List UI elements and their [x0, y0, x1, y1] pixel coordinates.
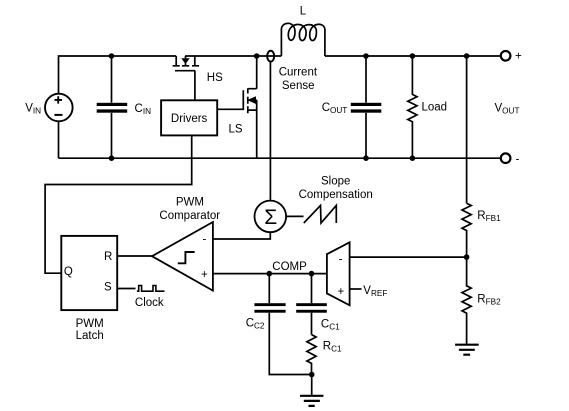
svg-text:LS: LS: [229, 124, 243, 136]
node compensation bottom junction: [309, 372, 315, 378]
node feedback tap top: [464, 53, 470, 59]
node COUT top: [363, 53, 369, 59]
label VREF: [363, 285, 387, 298]
wire error amp plus input to VREF: [350, 288, 362, 290]
current sense element: [267, 51, 274, 62]
svg-text:COMP: COMP: [272, 261, 307, 273]
node Load top: [410, 53, 416, 59]
svg-text:Drivers: Drivers: [171, 113, 208, 125]
driver block U1 Drivers: [161, 100, 217, 135]
summer U2 sigma: [254, 201, 286, 233]
latch U4 PWM latch: [61, 236, 117, 310]
wire top rail right (inductor to + terminal): [325, 55, 501, 57]
resistor RFB1: [462, 203, 471, 257]
svg-text:VOUT: VOUT: [495, 103, 520, 116]
slope compensation ramp symbol: [304, 205, 337, 223]
label CIN: [135, 103, 152, 116]
svg-text:CC2: CC2: [246, 318, 265, 331]
label VOUT: [495, 103, 520, 116]
label VIN: [25, 103, 41, 116]
transistor Q2 LS MOSFET: [217, 56, 257, 158]
wire current sense line down to summer: [269, 62, 271, 201]
resistor RFB2: [462, 257, 471, 344]
svg-text:PWM: PWM: [76, 318, 104, 330]
comparator internal step symbol: [178, 252, 195, 263]
svg-text:RC1: RC1: [323, 341, 342, 354]
svg-text:COUT: COUT: [322, 102, 348, 115]
wire COMP line (comparator plus input to error amp output): [213, 273, 327, 275]
wire summer output to comparator minus input: [214, 232, 271, 239]
label Current Sense: [279, 67, 318, 93]
label CC1: [321, 319, 340, 332]
svg-text:Current: Current: [279, 67, 318, 79]
capacitor CIN: [111, 56, 113, 158]
wire bottom rail: [59, 157, 501, 159]
capacitor CC1: [311, 274, 313, 335]
node CIN top: [109, 53, 115, 59]
label Clock: [135, 297, 164, 309]
svg-text:PWM: PWM: [176, 197, 204, 209]
node COUT bottom: [363, 155, 369, 161]
wire top rail left (VIN top to HS drain): [59, 56, 177, 94]
svg-text:CC1: CC1: [321, 319, 340, 332]
error amp plus input mark: [338, 286, 345, 298]
voltage source VIN: [45, 94, 73, 122]
svg-text:RFB1: RFB1: [477, 210, 501, 223]
error amp minus input mark: [339, 253, 343, 265]
label Load: [422, 102, 448, 114]
svg-text:Slope: Slope: [321, 176, 350, 188]
svg-text:-: -: [339, 253, 343, 265]
label LS: [229, 124, 243, 136]
svg-text:CIN: CIN: [135, 103, 152, 116]
svg-text:Clock: Clock: [135, 297, 164, 309]
node COMP tap CC2: [267, 271, 273, 277]
svg-text:Comparator: Comparator: [159, 210, 220, 222]
svg-text:RFB2: RFB2: [477, 294, 501, 307]
svg-text:+: +: [515, 51, 522, 63]
svg-text:Q: Q: [64, 266, 73, 278]
svg-text:Compensation: Compensation: [299, 189, 373, 201]
svg-text:Latch: Latch: [76, 330, 104, 342]
node CIN bottom: [109, 155, 115, 161]
terminal VOUT plus: [501, 51, 511, 61]
comparator U3 PWM comparator: [152, 222, 213, 291]
svg-text:Load: Load: [422, 102, 448, 114]
label RFB2: [477, 294, 501, 307]
label Slope Compensation: [299, 176, 373, 202]
svg-text:VIN: VIN: [25, 103, 41, 116]
label COUT: [322, 102, 348, 115]
clock waveform symbol: [137, 286, 165, 292]
wire summer to slope ramp: [286, 215, 303, 217]
capacitor CC2: [269, 274, 311, 375]
resistor Load: [408, 56, 417, 158]
svg-text:R: R: [104, 251, 112, 263]
node COMP tap CC1: [309, 271, 315, 277]
label HS: [207, 72, 223, 84]
node Load bottom: [410, 155, 416, 161]
inductor L: [281, 23, 325, 56]
error amplifier U5: [327, 242, 350, 305]
comparator plus input mark: [201, 269, 208, 281]
label RFB1: [477, 210, 501, 223]
svg-text:Sense: Sense: [282, 80, 315, 92]
svg-text:+: +: [201, 269, 208, 281]
svg-text:-: -: [516, 154, 520, 166]
capacitor COUT: [365, 56, 367, 158]
wire latch Q output to drivers: [45, 136, 192, 274]
wire feedback divider vertical: [466, 56, 468, 203]
wire latch S input: [117, 288, 135, 290]
label PWM Latch: [76, 318, 104, 342]
terminal VOUT minus: [501, 153, 511, 163]
resistor RC1: [307, 335, 316, 375]
label PWM Comparator: [159, 197, 220, 223]
node feedback divider: [464, 254, 470, 260]
wire top rail (HS source to inductor): [185, 55, 281, 57]
svg-text:L: L: [300, 6, 307, 18]
label L: [300, 6, 307, 18]
transistor Q1 HS MOSFET: [173, 56, 200, 100]
svg-text:-: -: [203, 234, 207, 246]
svg-text:+: +: [338, 286, 345, 298]
wire latch R input to comparator output: [117, 255, 152, 257]
wire error amp minus input to feedback node: [350, 256, 467, 258]
label RC1: [323, 341, 342, 354]
label COMP: [272, 261, 307, 273]
svg-text:Σ: Σ: [264, 206, 277, 229]
ground compensation network: [311, 375, 313, 396]
label CC2: [246, 318, 265, 331]
comparator minus input mark: [203, 234, 207, 246]
svg-text:S: S: [104, 282, 112, 294]
svg-text:VREF: VREF: [363, 285, 387, 298]
svg-text:HS: HS: [207, 72, 223, 84]
node switch node: [254, 53, 260, 59]
ground feedback divider: [455, 345, 479, 355]
